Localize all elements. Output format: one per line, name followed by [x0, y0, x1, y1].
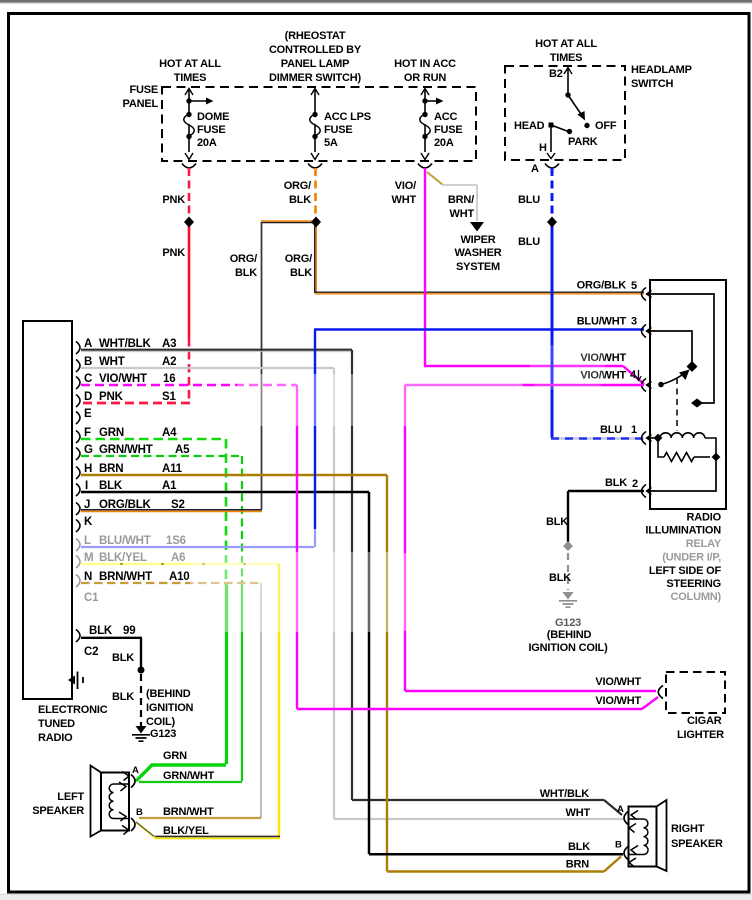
pin bracket C	[76, 377, 80, 390]
wire WHT/BLK pin A	[81, 350, 622, 815]
wire BLK pin I to right speaker	[81, 492, 623, 854]
relay internal path to terminal 3	[650, 331, 692, 362]
svg-text:GRN/WHT: GRN/WHT	[163, 770, 215, 782]
svg-text:BRN: BRN	[566, 859, 589, 871]
svg-text:(BEHIND: (BEHIND	[547, 629, 592, 641]
svg-text:BLK: BLK	[112, 652, 134, 664]
junction ORG/BLK	[311, 217, 321, 228]
wire BLU from headlamp switch	[551, 168, 644, 439]
wire BRN pin H to right speaker	[81, 475, 621, 872]
svg-text:HOT AT ALL: HOT AT ALL	[159, 58, 221, 70]
label HOT AT ALL TIMES (headlamp)	[535, 38, 597, 64]
fuse panel box	[162, 87, 476, 161]
svg-text:A: A	[84, 338, 92, 350]
svg-text:G123: G123	[555, 617, 581, 629]
svg-text:PANEL: PANEL	[123, 98, 159, 110]
pin C label	[84, 373, 175, 385]
svg-text:BLK: BLK	[235, 267, 257, 279]
svg-text:WHT: WHT	[566, 807, 591, 819]
svg-text:5: 5	[631, 280, 637, 292]
label RIGHT SPEAKER	[671, 823, 723, 850]
wire VIO/WHT pin C to cigar lighter	[81, 385, 658, 709]
relay internal path terminal 2	[650, 458, 716, 491]
left speaker	[91, 766, 130, 837]
svg-text:BLK/YEL: BLK/YEL	[163, 825, 209, 837]
svg-text:G123: G123	[150, 728, 176, 740]
svg-text:99: 99	[123, 625, 135, 637]
pin bracket C2	[76, 630, 80, 643]
svg-text:RADIO: RADIO	[687, 512, 722, 524]
label BLK 2	[605, 477, 638, 490]
wire BLK 99	[81, 638, 142, 669]
bottom gray bar	[0, 895, 752, 900]
wire BLK dashed to ground G123	[567, 553, 569, 590]
right speaker terminal bracket A	[624, 812, 628, 825]
left speaker chevrons	[119, 772, 129, 835]
svg-text:M: M	[84, 552, 93, 564]
svg-text:E: E	[84, 408, 92, 420]
wire ORG/BLK from fuse F2	[261, 168, 644, 509]
svg-text:BLU: BLU	[518, 236, 540, 248]
svg-text:SPEAKER: SPEAKER	[671, 838, 723, 850]
svg-text:B: B	[615, 840, 622, 851]
svg-text:TIMES: TIMES	[550, 52, 583, 64]
svg-text:GRN: GRN	[99, 427, 124, 439]
connector under F2	[308, 164, 322, 169]
label ORG/BLK 5	[577, 280, 637, 293]
svg-text:HOT AT ALL: HOT AT ALL	[535, 38, 597, 50]
relay terminal 1 connector	[642, 432, 652, 445]
svg-text:FUSE: FUSE	[434, 124, 463, 136]
relay terminal 4 connector	[642, 379, 652, 392]
svg-text:VIO/WHT: VIO/WHT	[99, 373, 147, 385]
svg-text:HOT IN ACC: HOT IN ACC	[394, 58, 456, 70]
svg-text:WHT: WHT	[99, 356, 125, 368]
svg-text:L: L	[84, 535, 91, 547]
svg-text:BLK: BLK	[549, 572, 571, 584]
svg-text:H: H	[539, 142, 547, 154]
wire PNK from fuse F1	[82, 168, 190, 403]
right speaker	[629, 800, 667, 871]
svg-text:IGNITION: IGNITION	[146, 702, 194, 714]
label HOT AT ALL TIMES (left)	[159, 58, 221, 84]
wire BLU/WHT pin L to relay pin 3	[81, 330, 644, 548]
pin I label	[85, 480, 177, 492]
svg-text:BLK: BLK	[99, 480, 123, 492]
svg-text:PNK: PNK	[162, 194, 185, 206]
svg-text:ELECTRONIC: ELECTRONIC	[38, 704, 108, 716]
relay internal path to terminal 5	[650, 294, 714, 403]
svg-text:OFF: OFF	[595, 120, 617, 132]
label HOT IN ACC OR RUN	[394, 58, 456, 84]
radio box ELECTRONIC TUNED RADIO	[23, 321, 72, 699]
label BRN/WHT	[448, 194, 475, 220]
svg-text:SPEAKER: SPEAKER	[32, 805, 84, 817]
label BLU 1	[600, 424, 637, 436]
svg-text:ORG/BLK: ORG/BLK	[577, 280, 627, 292]
svg-text:(RHEOSTAT: (RHEOSTAT	[285, 30, 346, 42]
svg-text:BLK/YEL: BLK/YEL	[99, 552, 147, 564]
left speaker terminal bracket A	[131, 775, 135, 788]
junction BLU	[547, 217, 557, 228]
right speaker terminal bracket B	[624, 847, 628, 860]
svg-text:LEFT SIDE OF: LEFT SIDE OF	[649, 565, 722, 577]
svg-text:SYSTEM: SYSTEM	[456, 261, 500, 273]
pin bracket F	[76, 431, 80, 444]
wire WHT pin B	[81, 368, 623, 819]
cigar lighter box	[666, 672, 725, 713]
junction PNK	[184, 217, 194, 228]
svg-text:WHT: WHT	[392, 194, 417, 206]
junction BLK diamond (gray)	[563, 541, 573, 551]
svg-text:VIO/: VIO/	[395, 180, 416, 192]
svg-text:5A: 5A	[324, 137, 338, 149]
pin bracket G	[76, 448, 80, 461]
svg-text:PARK: PARK	[568, 136, 598, 148]
pin N label	[84, 571, 190, 583]
relay internal diamond on terminal 3 path	[687, 361, 698, 372]
svg-text:A1: A1	[162, 480, 177, 492]
svg-text:PNK: PNK	[99, 391, 124, 403]
svg-text:(UNDER I/P,: (UNDER I/P,	[662, 552, 721, 564]
svg-text:A: A	[132, 765, 139, 776]
svg-text:H: H	[84, 463, 92, 475]
wire GRN/WHT pin G to left speaker	[81, 456, 242, 782]
antenna connector on radio	[68, 672, 83, 690]
headlamp switch internals	[547, 68, 585, 159]
label CIGAR LIGHTER	[677, 715, 724, 741]
svg-text:1S6: 1S6	[166, 535, 186, 547]
svg-text:BLK: BLK	[605, 477, 627, 489]
relay terminal 3 connector	[642, 325, 652, 338]
svg-text:RIGHT: RIGHT	[671, 823, 705, 835]
svg-text:BLU: BLU	[518, 194, 540, 206]
relay internal diamond on terminal 5 path	[691, 399, 703, 408]
label LEFT SPEAKER	[32, 791, 84, 817]
pin bracket J	[76, 503, 80, 516]
label ORG/BLK top	[284, 180, 312, 206]
svg-text:C: C	[84, 373, 92, 385]
svg-text:BLK: BLK	[112, 691, 134, 703]
svg-text:BRN/WHT: BRN/WHT	[99, 571, 152, 583]
connector under F1	[182, 164, 196, 169]
svg-text:SWITCH: SWITCH	[631, 78, 673, 90]
relay box	[650, 280, 726, 509]
ground G123 (radio)	[132, 726, 150, 741]
wire GRN pin F to left speaker	[81, 439, 227, 781]
pin C2 BLK 99 ground chain	[89, 625, 135, 637]
svg-text:GRN/WHT: GRN/WHT	[99, 444, 153, 456]
svg-text:16: 16	[163, 373, 175, 385]
pin L label	[84, 535, 186, 547]
svg-text:A3: A3	[162, 338, 176, 350]
fuse F2 ACC LPS FUSE 5A	[310, 89, 321, 160]
arrow wiper washer	[470, 222, 484, 232]
svg-text:BLK: BLK	[568, 841, 590, 853]
headlamp switch box	[505, 66, 625, 160]
svg-text:GRN: GRN	[163, 750, 187, 762]
svg-text:A: A	[617, 804, 624, 815]
pin D label	[84, 391, 176, 403]
svg-text:D: D	[84, 391, 92, 403]
label BEHIND IGNITION COIL (relay)	[528, 629, 608, 654]
label ORG/BLK right branch	[285, 253, 313, 279]
wire BLK dashed to ground	[140, 674, 142, 726]
junction BLK dot	[138, 667, 145, 674]
svg-text:20A: 20A	[197, 137, 217, 149]
svg-text:TUNED: TUNED	[38, 718, 75, 730]
svg-text:BLK: BLK	[289, 194, 311, 206]
label HEADLAMP SWITCH	[631, 64, 692, 90]
svg-text:LEFT: LEFT	[57, 791, 84, 803]
fuse F1 DOME FUSE 20A	[184, 89, 207, 160]
svg-text:A10: A10	[169, 571, 190, 583]
svg-text:LIGHTER: LIGHTER	[677, 729, 724, 741]
svg-text:WIPER: WIPER	[460, 234, 495, 246]
svg-text:B: B	[84, 356, 92, 368]
svg-text:ORG/: ORG/	[284, 180, 311, 192]
svg-text:COLUMN): COLUMN)	[670, 591, 721, 603]
svg-text:ORG/: ORG/	[285, 253, 312, 265]
svg-text:A2: A2	[162, 356, 176, 368]
svg-text:1: 1	[631, 424, 637, 436]
label BLU/WHT 3	[577, 316, 637, 328]
pin G label	[84, 444, 190, 456]
svg-text:A6: A6	[171, 552, 185, 564]
svg-text:FUSE: FUSE	[129, 84, 158, 96]
top gray bar	[0, 0, 752, 3]
svg-text:BLU/WHT: BLU/WHT	[99, 535, 151, 547]
svg-text:CIGAR: CIGAR	[687, 715, 722, 727]
svg-text:CONTROLLED BY: CONTROLLED BY	[269, 44, 362, 56]
svg-text:A: A	[531, 163, 539, 175]
relay coil diamonds	[654, 434, 663, 443]
fuse F3 ACC FUSE 20A	[420, 89, 437, 160]
svg-text:BRN/WHT: BRN/WHT	[163, 806, 214, 818]
svg-text:HEAD: HEAD	[514, 120, 545, 132]
label RADIO ILLUMINATION RELAY	[645, 512, 721, 604]
pin J label	[84, 499, 185, 511]
svg-text:A5: A5	[175, 444, 190, 456]
pin F label	[84, 427, 177, 439]
svg-text:B: B	[136, 807, 143, 818]
svg-text:RADIO: RADIO	[38, 732, 73, 744]
svg-text:PANEL LAMP: PANEL LAMP	[281, 58, 350, 70]
svg-text:WHT/BLK: WHT/BLK	[99, 338, 152, 350]
svg-text:VIO/WHT: VIO/WHT	[595, 695, 641, 707]
relay terminal 2 connector	[642, 485, 652, 498]
right speaker chevrons	[629, 811, 638, 868]
svg-text:F: F	[84, 427, 91, 439]
relay terminal 5 connector	[642, 288, 652, 301]
svg-text:TIMES: TIMES	[174, 72, 207, 84]
svg-text:BLK: BLK	[546, 516, 568, 528]
relay coil and resistor	[650, 433, 716, 462]
pin bracket A	[76, 342, 80, 355]
svg-text:B2: B2	[549, 68, 563, 80]
connector under headlamp H	[545, 164, 559, 169]
svg-text:A4: A4	[162, 427, 177, 439]
wire ORG/BLK pin J	[81, 510, 262, 512]
svg-text:C1: C1	[84, 592, 99, 604]
svg-text:BRN/: BRN/	[448, 194, 474, 206]
svg-text:WHT: WHT	[450, 208, 475, 220]
svg-text:BLK: BLK	[290, 267, 312, 279]
relay coil actuator dashed line	[676, 378, 678, 431]
pin bracket K	[76, 520, 80, 533]
svg-text:FUSE: FUSE	[324, 124, 353, 136]
svg-text:WHT/BLK: WHT/BLK	[540, 788, 590, 800]
svg-text:BRN: BRN	[99, 463, 123, 475]
svg-text:G: G	[84, 444, 93, 456]
wire BLK/YEL pin M to left speaker	[81, 564, 280, 838]
pin bracket N	[76, 575, 80, 588]
svg-text:BLK: BLK	[89, 625, 113, 637]
svg-text:VIO/WHT: VIO/WHT	[595, 676, 641, 688]
left speaker terminal bracket B	[131, 818, 135, 831]
label VIO/WHT	[392, 180, 417, 206]
wire BLK relay terminal 2 to ground	[568, 491, 644, 542]
svg-text:STEERING: STEERING	[666, 578, 721, 590]
svg-text:BLU/WHT: BLU/WHT	[577, 316, 627, 328]
pin bracket M	[76, 556, 80, 569]
wire VIO/WHT to cigar lighter (from relay 4)	[405, 385, 656, 691]
pin bracket E	[76, 412, 80, 425]
label WIPER WASHER SYSTEM	[454, 234, 501, 273]
svg-text:OR RUN: OR RUN	[404, 72, 446, 84]
svg-text:K: K	[84, 516, 93, 528]
svg-text:DOME: DOME	[197, 111, 229, 123]
wire VIO/WHT from fuse F3 to relay pin 4	[424, 168, 644, 384]
label VIO/WHT lower with 4	[580, 369, 641, 382]
connector under F3	[418, 164, 432, 169]
svg-text:RELAY: RELAY	[686, 538, 722, 550]
pin B label	[84, 356, 176, 368]
svg-text:20A: 20A	[434, 137, 454, 149]
wire BRN/WHT pin N to left speaker	[81, 583, 261, 818]
pin bracket B	[76, 360, 80, 373]
svg-text:ORG/: ORG/	[230, 253, 257, 265]
svg-text:N: N	[84, 571, 92, 583]
pin bracket L	[76, 539, 80, 552]
fuse panel label	[123, 84, 159, 110]
svg-text:IGNITION COIL): IGNITION COIL)	[528, 642, 608, 654]
svg-text:(BEHIND: (BEHIND	[146, 688, 191, 700]
svg-text:ILLUMINATION: ILLUMINATION	[645, 525, 721, 537]
svg-text:ACC: ACC	[434, 111, 457, 123]
svg-text:2: 2	[632, 478, 638, 490]
pin bracket D	[76, 395, 80, 408]
label ELECTRONIC TUNED RADIO	[38, 704, 108, 744]
wire BRN/WHT to wiper washer	[427, 172, 477, 221]
svg-text:I: I	[85, 480, 88, 492]
relay switch wiper from terminal 4	[658, 370, 689, 388]
svg-text:DIMMER SWITCH): DIMMER SWITCH)	[269, 72, 361, 84]
pin M label	[84, 552, 185, 564]
svg-text:C2: C2	[84, 646, 98, 658]
pin H label	[84, 463, 183, 475]
watermark	[190, 345, 605, 632]
ground G123 (relay)	[559, 592, 577, 607]
svg-text:WASHER: WASHER	[454, 247, 501, 259]
svg-text:ACC LPS: ACC LPS	[324, 111, 371, 123]
label ORG/BLK left branch	[230, 253, 258, 279]
svg-text:3: 3	[631, 316, 637, 328]
svg-text:S1: S1	[162, 391, 176, 403]
svg-text:COIL): COIL)	[146, 716, 175, 728]
cigar lighter connector	[658, 686, 663, 699]
svg-text:PNK: PNK	[162, 247, 185, 259]
svg-text:FUSE: FUSE	[197, 124, 226, 136]
svg-text:HEADLAMP: HEADLAMP	[631, 64, 692, 76]
pin bracket I	[76, 484, 80, 497]
pin A label	[84, 338, 176, 350]
svg-text:BLU: BLU	[600, 424, 622, 436]
svg-text:A11: A11	[162, 463, 183, 475]
label RHEOSTAT	[269, 30, 362, 84]
label BEHIND IGNITION COIL (radio)	[146, 688, 194, 728]
pin bracket H	[76, 467, 80, 480]
